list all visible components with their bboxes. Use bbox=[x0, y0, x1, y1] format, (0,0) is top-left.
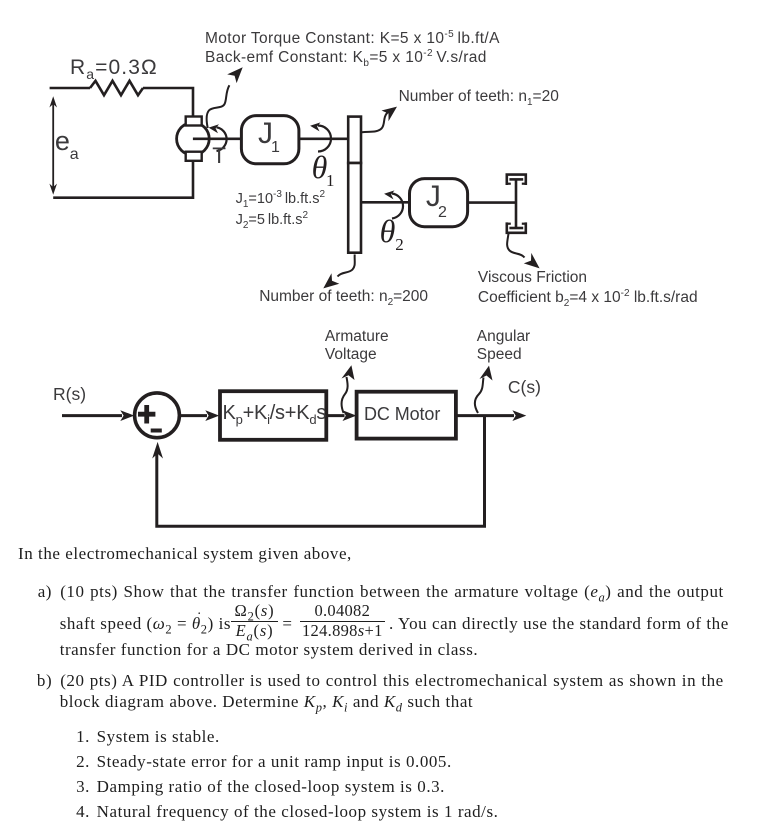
shaft gear2 to J2 bbox=[361, 201, 410, 204]
wire bottom bbox=[53, 161, 193, 198]
label: T torque bbox=[212, 143, 226, 169]
plus sign bbox=[138, 405, 155, 424]
block diagram: input arrow R(s) bbox=[62, 410, 134, 421]
leader arrow angular speed bbox=[475, 366, 493, 413]
label: J2 bbox=[426, 180, 441, 214]
leader arrow motor constants bbox=[207, 67, 243, 128]
torque arc T bbox=[209, 124, 227, 151]
summing junction bbox=[135, 393, 180, 438]
fraction 0.04082/124.898s+1 bbox=[300, 603, 385, 640]
inertia J1 box bbox=[241, 116, 299, 164]
label: ea bbox=[55, 126, 70, 157]
leader arrow b2 bbox=[507, 234, 539, 269]
gear n1 bbox=[348, 117, 361, 163]
shaft J1 to gear1 bbox=[299, 138, 348, 141]
wire resistor to motor bbox=[143, 88, 193, 117]
minus sign bbox=[151, 429, 162, 433]
list item 2 bbox=[76, 753, 452, 770]
item a line 2 end bbox=[389, 615, 729, 632]
motor M bbox=[177, 117, 210, 161]
item a line 1 bbox=[60, 583, 724, 600]
gear n2 bbox=[348, 163, 361, 253]
feedback arrow into summing junction bbox=[152, 442, 163, 459]
arrow sum to PID block bbox=[179, 410, 219, 421]
feedback wire bbox=[157, 416, 485, 527]
label: viscous friction bbox=[478, 268, 698, 308]
label: J inertia values bbox=[236, 189, 325, 229]
DC motor block bbox=[357, 392, 456, 439]
label: Ra value bbox=[70, 56, 158, 80]
label: number of teeth n1 bbox=[399, 88, 559, 106]
leader arrow armature voltage bbox=[342, 365, 355, 413]
viscous damper b2 bbox=[507, 175, 526, 233]
label: J1 bbox=[258, 117, 273, 151]
voltage arrow ea bbox=[49, 96, 57, 195]
label: theta1 bbox=[312, 149, 328, 186]
fraction omega2/Ea bbox=[231, 603, 279, 640]
label: PID gains bbox=[223, 402, 327, 425]
label: number of teeth n2 bbox=[259, 288, 428, 306]
item b line 2 bbox=[60, 693, 474, 710]
label: motor constants text bbox=[205, 29, 500, 68]
list item 3 bbox=[76, 778, 445, 795]
shaft motor to J1 bbox=[193, 138, 242, 141]
label: angular speed bbox=[477, 328, 530, 363]
shaft J2 to damper bbox=[468, 201, 516, 204]
label: C(s) bbox=[508, 377, 541, 398]
list item 1 bbox=[76, 728, 220, 745]
label: DC Motor bbox=[364, 404, 440, 425]
leader arrow n2 bbox=[323, 254, 354, 288]
label: theta2 bbox=[380, 213, 396, 250]
output arrow C(s) bbox=[456, 410, 526, 421]
angle arc theta1 bbox=[310, 122, 331, 151]
resistor Ra bbox=[90, 81, 143, 95]
label: R(s) bbox=[53, 384, 86, 405]
list item 4 bbox=[76, 803, 498, 820]
item b line 1 bbox=[60, 672, 724, 689]
item a label bbox=[38, 583, 52, 600]
PID block bbox=[220, 391, 326, 440]
angle arc theta2 bbox=[384, 190, 403, 218]
label: armature voltage bbox=[325, 328, 389, 363]
leader arrow n1 bbox=[362, 107, 397, 133]
equals bbox=[282, 615, 292, 632]
arrow PID to DC motor bbox=[326, 410, 356, 421]
paragraph intro bbox=[18, 545, 352, 562]
item b label bbox=[37, 672, 52, 689]
wire top left bbox=[50, 87, 90, 90]
inertia J2 box bbox=[410, 179, 468, 227]
item a line 3 bbox=[60, 641, 478, 658]
item a line 2 start bbox=[60, 615, 231, 632]
